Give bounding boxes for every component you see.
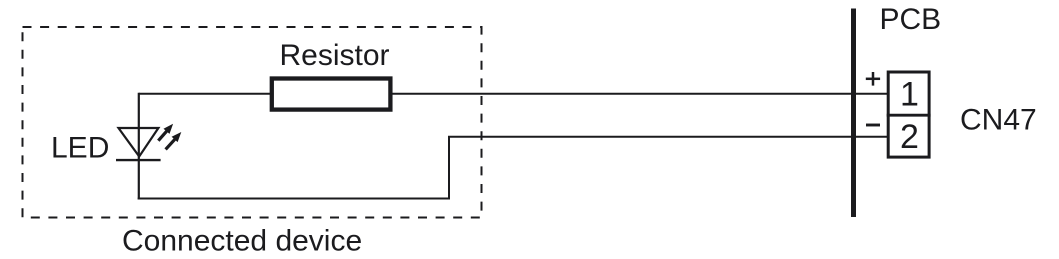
svg-text:Resistor: Resistor xyxy=(280,39,390,72)
polarity minus sign xyxy=(866,124,880,127)
polarity plus sign xyxy=(866,72,880,86)
connector CN47 body (two-pin header) xyxy=(888,72,929,157)
svg-text:Connected device: Connected device xyxy=(122,225,362,258)
LED light emission arrow 1 xyxy=(158,124,173,141)
svg-text:1: 1 xyxy=(900,76,919,114)
LED triangle (anode) xyxy=(119,128,159,157)
connector cell divider xyxy=(887,114,931,117)
resistor body xyxy=(272,79,391,110)
LED light emission arrow 2 xyxy=(166,132,182,149)
svg-text:CN47: CN47 xyxy=(960,103,1037,136)
wire: LED vertical branch xyxy=(138,93,140,200)
svg-text:LED: LED xyxy=(51,132,109,165)
wire: anode net from LED top corner through resistor to CN47 pin 1 xyxy=(139,93,888,95)
svg-text:PCB: PCB xyxy=(880,3,942,36)
PCB edge: thick vertical line xyxy=(851,9,856,218)
svg-text:2: 2 xyxy=(900,118,919,156)
LED cathode bar xyxy=(116,159,161,161)
wire: cathode return from LED bottom, step up, to CN47 pin 2 xyxy=(138,137,888,199)
dashed enclosure: connected device boundary xyxy=(23,27,482,218)
